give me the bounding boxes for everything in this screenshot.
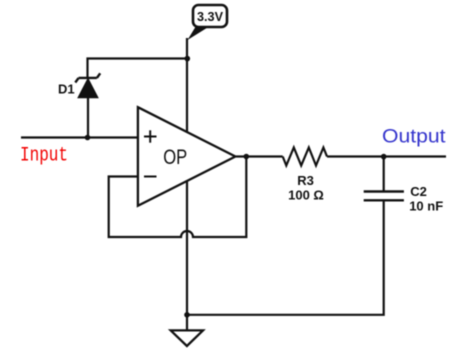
svg-text:10 nF: 10 nF	[409, 199, 443, 214]
svg-text:Output: Output	[382, 127, 446, 148]
svg-text:R3: R3	[297, 173, 314, 188]
svg-text:OP: OP	[163, 146, 187, 169]
svg-text:Input: Input	[20, 145, 68, 168]
svg-text:3.3V: 3.3V	[197, 10, 224, 24]
svg-text:D1: D1	[58, 82, 75, 97]
svg-text:C2: C2	[410, 184, 427, 199]
svg-text:100 Ω: 100 Ω	[288, 188, 324, 203]
